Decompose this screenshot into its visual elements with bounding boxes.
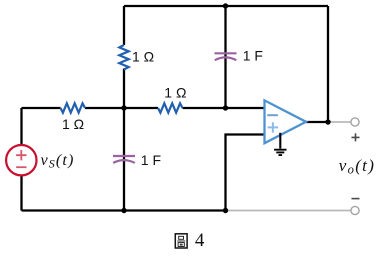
svg-text:1 F: 1 F [141, 152, 161, 168]
wire gray to bottom output terminal [226, 210, 352, 212]
capacitor C1 curved plate [215, 57, 237, 60]
wire top rail [124, 5, 328, 7]
junction bottom rail / noninverting branch [223, 208, 228, 213]
junction output node [325, 119, 330, 124]
resistor R3 horizontal 1 ohm [158, 103, 182, 112]
junction node A [121, 105, 126, 110]
wire left vertical below source [20, 175, 22, 210]
svg-text:1 Ω: 1 Ω [164, 85, 186, 101]
wire R2 to R3 [85, 107, 158, 109]
voltage source minus sign [16, 166, 26, 168]
op-amp plus label [268, 122, 279, 132]
svg-text:1 F: 1 F [243, 48, 263, 64]
wire gray to top output terminal [328, 121, 351, 123]
wire op-amp output [306, 121, 329, 123]
junction bottom rail / C2 [121, 208, 126, 213]
ground stub [279, 133, 281, 149]
wire node A down through C2 to bottom rail [123, 108, 125, 211]
capacitor C2 curved plate [113, 160, 135, 163]
svg-text:vS(t): vS(t) [41, 151, 75, 171]
wire op-amp noninverting input to bottom rail [226, 135, 265, 211]
svg-text:4: 4 [195, 230, 205, 251]
op-amp U1 triangle [265, 100, 307, 143]
output plus polarity mark [352, 133, 360, 141]
wire below R1 to node A [123, 69, 125, 109]
wire left vertical above source [20, 108, 22, 145]
terminal bottom output [351, 206, 359, 214]
wire top capacitor branch [224, 6, 226, 108]
wire top-left vertical into R1 [123, 6, 125, 45]
output minus polarity mark [352, 198, 360, 200]
terminal top output [351, 118, 359, 126]
caption figure glyph [175, 234, 187, 248]
wire right vertical from top rail to output node [327, 6, 329, 122]
op-amp minus label [267, 114, 278, 116]
resistor R1 vertical 1 ohm [119, 45, 128, 70]
junction node B [223, 105, 228, 110]
wire R3 to op-amp inverting input [183, 107, 265, 109]
wire bottom rail [22, 209, 226, 211]
ground symbol [274, 150, 286, 155]
junction dot top rail / C1 [223, 3, 228, 8]
capacitor C1 1 F top plate [215, 52, 237, 54]
voltage source plus sign [16, 150, 26, 160]
svg-text:1 Ω: 1 Ω [132, 49, 154, 65]
wire source to R2 [22, 107, 61, 109]
resistor R2 horizontal 1 ohm [61, 103, 86, 112]
svg-text:1 Ω: 1 Ω [62, 116, 84, 132]
voltage source vS circle [6, 145, 36, 175]
svg-text:vo(t): vo(t) [339, 156, 375, 177]
capacitor C2 1 F top plate [113, 155, 135, 157]
